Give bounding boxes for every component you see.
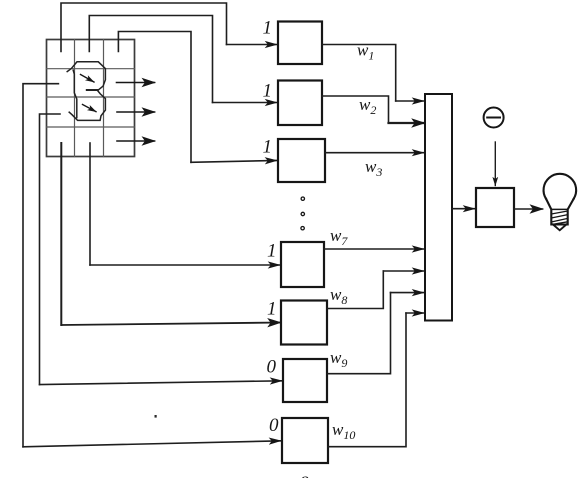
wire L2: retina row3 left tap to box A9: [40, 114, 61, 385]
retina grid outer frame: [47, 40, 135, 157]
wire W9 to summator: [327, 293, 391, 374]
svg-text:1: 1: [267, 299, 277, 320]
retina grid inner lines: [47, 40, 135, 157]
wire T1: retina top cell 1 to box A1: [61, 3, 227, 52]
arrow into top loop of 8: [81, 75, 95, 83]
box A1: [278, 22, 322, 65]
wire summator to threshold unit: [452, 208, 475, 210]
svg-text:w10: w10: [332, 420, 355, 442]
inhibitory sign: circle with minus: [484, 108, 504, 128]
lamp base hatching: [551, 211, 567, 224]
wire threshold unit to lamp: [514, 208, 543, 210]
wire L1: retina row2 left tap to box A10: [23, 84, 58, 447]
box A2: [278, 81, 322, 126]
svg-text:8: 8: [300, 473, 309, 478]
box A9: [283, 359, 327, 402]
wire B2: retina bottom cell 2 to box A7: [89, 143, 91, 265]
wire W10 to summator: [328, 313, 406, 447]
svg-text:w2: w2: [359, 95, 376, 117]
wire W2 to summator: [322, 96, 389, 123]
summator: [425, 94, 452, 321]
svg-text:1: 1: [267, 241, 277, 262]
svg-text:0: 0: [269, 415, 279, 436]
svg-text:w3: w3: [365, 157, 382, 179]
threshold unit box: [476, 188, 514, 227]
arrow from minus circle down into threshold unit: [494, 142, 496, 186]
box A3: [278, 139, 325, 182]
figure 8 stimulus on retina: [67, 62, 105, 121]
svg-text:w8: w8: [330, 285, 347, 307]
svg-text:1: 1: [263, 18, 273, 39]
svg-text:0: 0: [267, 357, 277, 378]
wire T2: retina top cell 2 to box A2: [89, 16, 212, 103]
wire W1 to summator: [322, 45, 396, 102]
wire T3: retina top cell 3 to box A3: [118, 32, 191, 163]
wire W8 to summator: [327, 271, 383, 309]
svg-text:w9: w9: [330, 348, 347, 370]
wire W3 to summator: [325, 152, 424, 154]
arrow into bottom loop of 8: [83, 105, 97, 112]
svg-text:1: 1: [263, 81, 273, 102]
lamp (light bulb): [544, 174, 577, 230]
right arrows out of retina: [117, 83, 155, 142]
stray speck: [155, 415, 157, 418]
waist dash: [87, 89, 98, 91]
wire W7 to summator: [324, 248, 424, 250]
box A8: [281, 301, 327, 345]
wire B1: retina bottom cell 1 to box A8: [60, 143, 62, 325]
svg-text:1: 1: [263, 137, 273, 158]
box A7: [281, 242, 324, 287]
svg-text:w7: w7: [330, 226, 348, 248]
ellipsis dots: [301, 197, 305, 230]
box A10: [282, 418, 328, 463]
